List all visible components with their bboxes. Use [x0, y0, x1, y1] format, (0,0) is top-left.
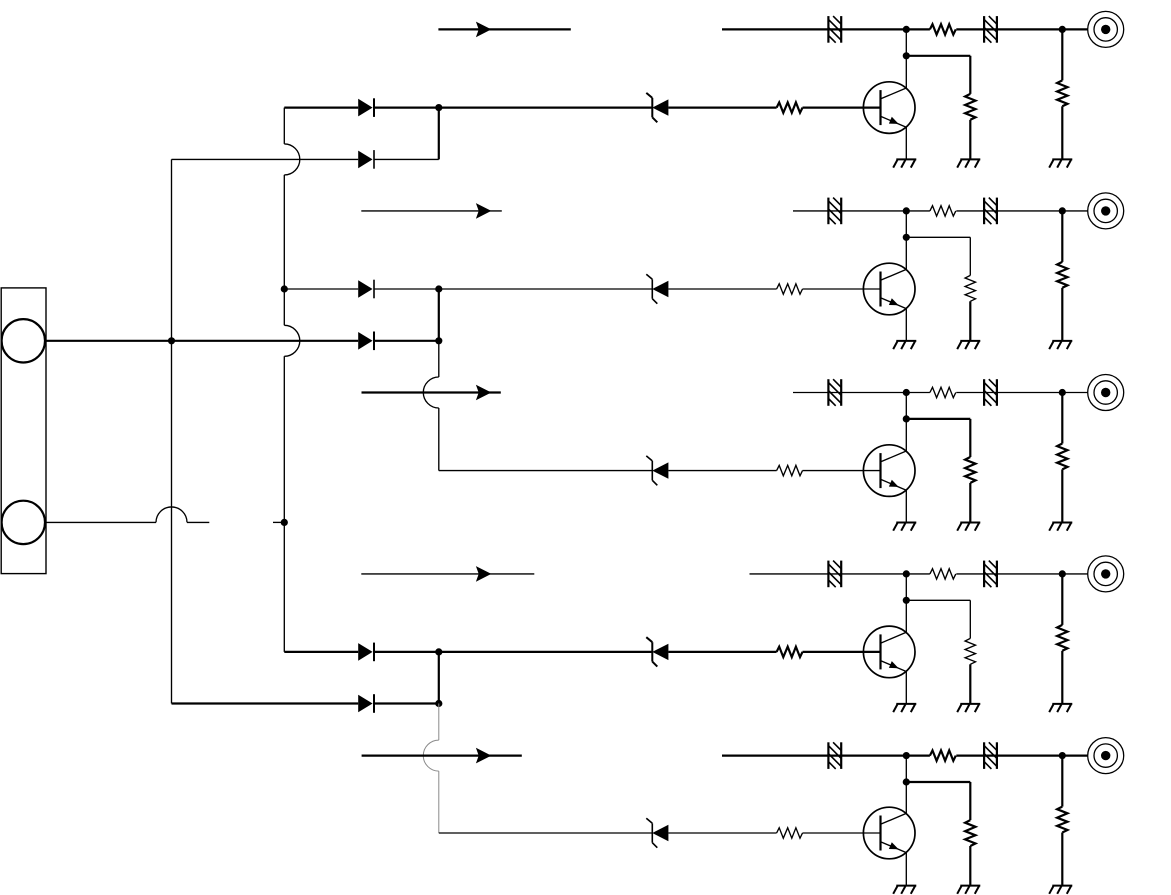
- ferrite bead FB2a: [828, 198, 841, 225]
- resistor R13 (load): [965, 94, 975, 120]
- supply line channel 3: [793, 392, 1088, 394]
- zener diode Z2: [646, 274, 668, 303]
- wire to zener Z1: [439, 106, 653, 108]
- wire D5 to node C4: [374, 651, 439, 653]
- ferrite bead FB3b: [984, 379, 997, 406]
- transistor Q2: [863, 263, 915, 315]
- ferrite bead FB4a: [828, 561, 841, 588]
- output connector J4: [1088, 375, 1124, 411]
- wire D2 to riser: [374, 158, 439, 160]
- ferrite bead FB1b: [984, 16, 997, 43]
- collector riser to node D42: [905, 574, 907, 600]
- wire Z3 to base resistor: [668, 470, 776, 472]
- resistor R22 (series): [930, 206, 956, 216]
- wire R14 to ground: [1061, 106, 1063, 159]
- resistor R12 (series): [930, 24, 956, 34]
- connector pin P1: [2, 319, 45, 362]
- resistor R21 (base): [777, 284, 803, 294]
- wire bus2 corner to diode D1: [284, 106, 358, 108]
- riser node C2 to node C3: [438, 289, 440, 341]
- resistor R31 (base): [777, 465, 803, 475]
- ground (load R23): [957, 341, 980, 349]
- node D21 dot: [903, 207, 910, 214]
- resistor R51 (base): [777, 828, 803, 838]
- junction bus2/row2a dot: [281, 285, 288, 292]
- emitter wire Q2 to ground: [905, 309, 907, 341]
- resistor R23 (load): [965, 275, 975, 301]
- wire Z4 to base resistor: [668, 651, 776, 653]
- ground (emitter Q5): [893, 886, 916, 894]
- output shunt wire channel 4: [1061, 574, 1063, 625]
- wire to zener Z3: [439, 470, 653, 472]
- node D32 dot: [903, 415, 910, 422]
- wire Z5 to base resistor: [668, 832, 776, 834]
- drop wire C3 to channel 3 (hops arrow 3): [423, 341, 439, 471]
- diode D3: [358, 280, 374, 299]
- node D51 dot: [903, 752, 910, 759]
- signal flow arrow channel 4: [361, 566, 534, 582]
- transistor Q4: [863, 626, 915, 678]
- wire Z2 to base resistor: [668, 288, 776, 290]
- wire D1 to node C1: [374, 106, 439, 108]
- vertical bus wire 2 (hops at rows 1b and 2b): [284, 108, 300, 652]
- supply line channel 4: [750, 573, 1088, 575]
- resistor R43 (load): [965, 638, 975, 664]
- ground (shunt R34): [1049, 523, 1072, 531]
- ground (shunt R24): [1049, 341, 1072, 349]
- wire R53 to ground: [969, 846, 971, 886]
- signal flow arrow channel 3: [362, 385, 501, 401]
- collector riser to node D52: [905, 756, 907, 782]
- transistor Q5: [863, 807, 915, 859]
- collector wire into Q3: [905, 419, 907, 451]
- collector riser to node D22: [905, 211, 907, 237]
- wire R24 to ground: [1061, 288, 1063, 341]
- output shunt wire channel 1: [1061, 29, 1063, 80]
- ground (load R33): [957, 523, 980, 531]
- resistor R41 (base): [777, 647, 803, 657]
- diode D1: [358, 98, 374, 117]
- zener diode Z5: [646, 818, 668, 847]
- junction A dot: [168, 337, 175, 344]
- emitter wire Q5 to ground: [905, 853, 907, 886]
- wire R41 to transistor base: [803, 651, 881, 653]
- input connector J1 body: [1, 288, 46, 574]
- collector load branch channel 5: [906, 782, 970, 820]
- node D13 dot: [1059, 26, 1066, 33]
- wire R13 to ground: [969, 120, 971, 160]
- resistor R52 (series): [930, 750, 956, 760]
- ground (emitter Q2): [893, 341, 916, 349]
- wire to zener Z4: [439, 651, 653, 653]
- drop wire C5 to channel 5 (hops arrow 5): [423, 704, 439, 834]
- supply line channel 5: [722, 754, 1088, 756]
- resistor R53 (load): [965, 820, 975, 846]
- wire D4 to node C3: [374, 340, 439, 342]
- collector wire into Q1: [905, 56, 907, 88]
- node D11 dot: [903, 26, 910, 33]
- resistor R44 (shunt): [1057, 625, 1067, 651]
- wire bus1 corner to diode D6: [172, 702, 359, 704]
- diode D6: [358, 694, 374, 713]
- node D52 dot: [903, 778, 910, 785]
- node D42 dot: [903, 597, 910, 604]
- node D41 dot: [903, 570, 910, 577]
- resistor R54 (shunt): [1057, 807, 1067, 833]
- node C3 dot: [435, 337, 442, 344]
- ground (shunt R14): [1049, 159, 1072, 167]
- wire P2 toward node B (hops bus 1): [46, 507, 210, 523]
- signal flow arrow channel 2: [361, 203, 502, 219]
- wire R34 to ground: [1061, 469, 1063, 522]
- riser node C4 to node C5: [438, 652, 440, 704]
- resistor R34 (shunt): [1057, 444, 1067, 470]
- wire R11 to transistor base: [803, 106, 881, 108]
- transistor Q1: [863, 82, 915, 134]
- node B dot: [281, 519, 288, 526]
- ground (emitter Q4): [893, 704, 916, 712]
- transistor Q3: [863, 445, 915, 497]
- resistor R42 (series): [930, 569, 956, 579]
- node C1 dot: [435, 104, 442, 111]
- resistor R33 (load): [965, 457, 975, 483]
- zener diode Z3: [646, 456, 668, 485]
- ground (shunt R54): [1049, 886, 1072, 894]
- ground (load R53): [957, 886, 980, 894]
- wire R21 to transistor base: [803, 288, 881, 290]
- output connector J2: [1088, 11, 1124, 47]
- collector load branch channel 3: [906, 419, 970, 457]
- zener diode Z1: [646, 93, 668, 122]
- node C5 dot: [435, 700, 442, 707]
- collector wire into Q4: [905, 600, 907, 632]
- riser D2 up to node C1: [438, 108, 440, 160]
- collector riser to node D12: [905, 29, 907, 55]
- output shunt wire channel 3: [1061, 393, 1063, 444]
- node D31 dot: [903, 389, 910, 396]
- node C4 dot: [435, 648, 442, 655]
- node D12 dot: [903, 52, 910, 59]
- collector wire into Q2: [905, 237, 907, 269]
- collector load branch channel 2: [906, 237, 970, 275]
- wire bus2 to diode D3: [284, 288, 358, 290]
- resistor R24 (shunt): [1057, 262, 1067, 288]
- wire junction A to diode D4: [172, 340, 359, 342]
- ferrite bead FB5b: [984, 742, 997, 769]
- supply line channel 2: [793, 210, 1088, 212]
- wire R51 to transistor base: [803, 832, 881, 834]
- node C2 dot: [435, 285, 442, 292]
- output shunt wire channel 5: [1061, 756, 1063, 807]
- node D22 dot: [903, 234, 910, 241]
- zener diode Z4: [646, 637, 668, 666]
- output connector J5: [1088, 556, 1124, 592]
- resistor R11 (base): [777, 102, 803, 112]
- collector load branch channel 1: [906, 56, 970, 94]
- ground (load R43): [957, 704, 980, 712]
- signal flow arrow channel 1: [438, 22, 570, 38]
- diode D2: [358, 150, 374, 169]
- ferrite bead FB5a: [828, 742, 841, 769]
- wire R43 to ground: [969, 664, 971, 704]
- wire stub into node B: [273, 521, 284, 523]
- wire to zener Z2: [439, 288, 653, 290]
- wire to zener Z5: [439, 832, 653, 834]
- wire D6 to node C5: [374, 702, 439, 704]
- signal flow arrow channel 5: [362, 748, 522, 764]
- diode D4: [358, 332, 374, 351]
- output shunt wire channel 2: [1061, 211, 1063, 262]
- node D43 dot: [1059, 570, 1066, 577]
- wire bus1 corner to diode D2: [172, 158, 359, 160]
- ferrite bead FB1a: [828, 16, 841, 43]
- node D53 dot: [1059, 752, 1066, 759]
- wire R44 to ground: [1061, 651, 1063, 704]
- node D23 dot: [1059, 207, 1066, 214]
- wire R54 to ground: [1061, 833, 1063, 886]
- wire bus2 corner to diode D5: [284, 651, 358, 653]
- wire P1 to junction A: [46, 340, 172, 342]
- output connector J3: [1088, 193, 1124, 229]
- ferrite bead FB3a: [828, 379, 841, 406]
- ground (shunt R44): [1049, 704, 1072, 712]
- wire D3 to node C2: [374, 288, 439, 290]
- ground (load R13): [957, 159, 980, 167]
- diode D5: [358, 643, 374, 662]
- wire Z1 to base resistor: [668, 106, 776, 108]
- vertical bus wire 1: [171, 159, 173, 703]
- collector wire into Q5: [905, 782, 907, 813]
- collector riser to node D32: [905, 393, 907, 419]
- wire R23 to ground: [969, 301, 971, 341]
- wire R33 to ground: [969, 483, 971, 523]
- emitter wire Q4 to ground: [905, 672, 907, 704]
- connector pin P2: [2, 501, 45, 544]
- ground (emitter Q3): [893, 523, 916, 531]
- ferrite bead FB4b: [984, 561, 997, 588]
- wire R31 to transistor base: [803, 470, 881, 472]
- ground (emitter Q1): [893, 159, 916, 167]
- node D33 dot: [1059, 389, 1066, 396]
- supply line channel 1: [722, 28, 1088, 30]
- resistor R32 (series): [930, 387, 956, 397]
- collector load branch channel 4: [906, 600, 970, 638]
- output connector J6: [1088, 738, 1124, 774]
- emitter wire Q1 to ground: [905, 127, 907, 159]
- ferrite bead FB2b: [984, 198, 997, 225]
- resistor R14 (shunt): [1057, 80, 1067, 106]
- emitter wire Q3 to ground: [905, 490, 907, 522]
